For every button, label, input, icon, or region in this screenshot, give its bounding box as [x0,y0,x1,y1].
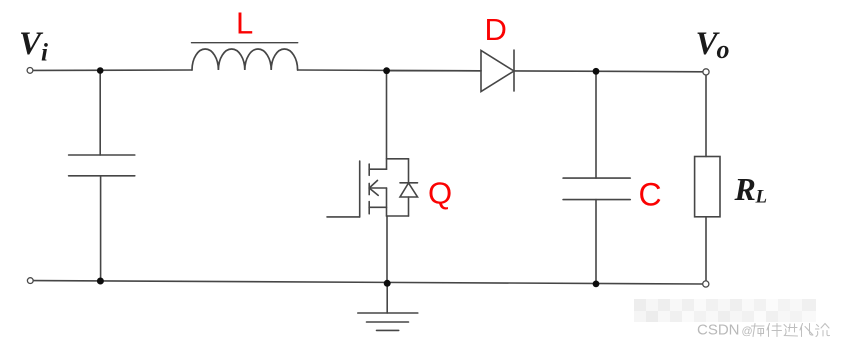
transistor Q gate lead [327,216,360,218]
watermark text CSDN [697,322,753,339]
junction node source/ground [384,280,391,287]
junction node drain [383,67,390,74]
transistor Q drain-diode branch [387,158,409,160]
transistor Q source vertical [386,188,388,216]
wire drain node to diode [387,70,482,72]
terminal input bottom [27,278,33,284]
svg-text:@: @ [742,326,753,338]
label RL [734,171,768,208]
body diode of Q [400,159,418,216]
transistor Q top stub [369,168,386,170]
capacitor C plates [563,178,630,200]
transistor Q channel tick middle [368,183,370,194]
terminal output top [703,69,709,75]
wire bottom rail [33,281,703,284]
svg-text:L: L [755,187,768,208]
label Vi [19,26,48,67]
wire diode to output terminal [514,70,703,73]
svg-text:D: D [485,12,507,47]
inductor L [192,43,298,70]
transistor Q gate bar [359,161,361,217]
transistor Q channel tick bottom [368,202,370,214]
resistor RL bottom lead [705,217,707,281]
ground symbol [358,313,418,330]
svg-text:i: i [41,40,48,67]
svg-text:R: R [734,171,756,207]
transistor Q middle stub with arrow [369,180,386,195]
transistor Q drain lead [386,71,388,170]
junction node top-left [97,67,104,74]
transistor Q channel tick top [368,164,370,175]
watermark CJK glyph blocks [752,324,830,337]
capacitor input plates [69,155,135,176]
wire top left segment [33,69,192,71]
terminal input top [27,68,33,74]
transistor Q bottom stub [369,206,386,208]
diode D [481,50,514,92]
capacitor input: top lead [99,71,101,156]
junction node C top [593,68,600,75]
label Vo [696,26,730,64]
svg-text:C: C [639,177,662,213]
svg-text:Q: Q [428,176,452,211]
svg-text:L: L [236,6,253,41]
junction node C bottom [593,281,600,288]
svg-text:CSDN: CSDN [697,322,740,339]
junction node bottom-left [97,278,104,285]
resistor RL top lead [705,75,707,157]
capacitor C top lead [595,71,597,178]
transistor Q source lead down [386,216,388,283]
watermark mosaic [634,299,816,322]
terminal output bottom [703,281,709,287]
transistor Q bottom rail to diode [387,215,409,217]
svg-text:o: o [717,35,730,64]
ground lead [386,284,388,314]
resistor RL body [695,157,720,217]
capacitor C bottom lead [595,200,597,284]
capacitor input: bottom lead [100,176,102,281]
wire inductor to drain node [298,69,481,72]
